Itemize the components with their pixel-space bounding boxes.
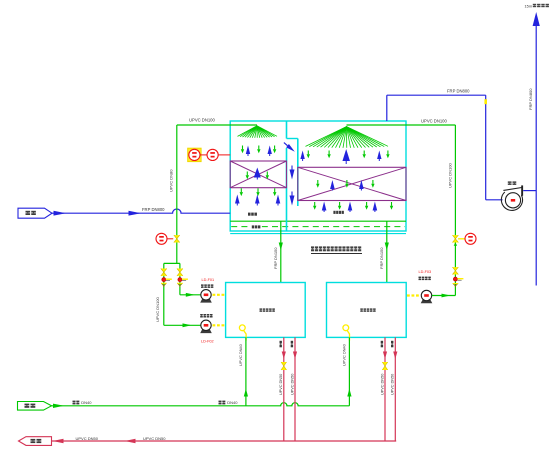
svg-text:DN40: DN40 [81, 400, 92, 405]
svg-text:UPVC DN50: UPVC DN50 [143, 436, 166, 441]
svg-text:UPVC DN40: UPVC DN40 [342, 343, 347, 366]
svg-text:UPVC DN100: UPVC DN100 [155, 297, 160, 322]
svg-text:FRP DN800: FRP DN800 [447, 89, 470, 94]
svg-text:UPVC DN50: UPVC DN50 [290, 374, 294, 395]
svg-text:FRP DN800: FRP DN800 [142, 207, 165, 212]
svg-text:UPVC DN40: UPVC DN40 [238, 343, 243, 366]
svg-text:DN40: DN40 [227, 400, 238, 405]
svg-text:UPVC DN50: UPVC DN50 [380, 374, 384, 395]
svg-text:LD-F02: LD-F02 [201, 340, 214, 344]
svg-text:UPVC DN50: UPVC DN50 [76, 436, 99, 441]
svg-text:15m: 15m [525, 3, 533, 8]
svg-text:UPVC DN100: UPVC DN100 [189, 118, 216, 123]
svg-text:UPVC DN50: UPVC DN50 [279, 374, 283, 395]
svg-text:LD-F01: LD-F01 [202, 278, 215, 282]
svg-text:UPVC DN100: UPVC DN100 [421, 118, 448, 123]
svg-text:FRP DN150: FRP DN150 [273, 247, 278, 269]
svg-text:UPVC DN100: UPVC DN100 [448, 163, 453, 188]
svg-text:FRP DN800: FRP DN800 [528, 88, 533, 110]
svg-text:UPVC DN50: UPVC DN50 [391, 374, 395, 395]
svg-text:UPVC DN80: UPVC DN80 [169, 169, 174, 192]
svg-text:FRP DN150: FRP DN150 [379, 247, 384, 269]
svg-text:LD-F03: LD-F03 [419, 270, 432, 274]
